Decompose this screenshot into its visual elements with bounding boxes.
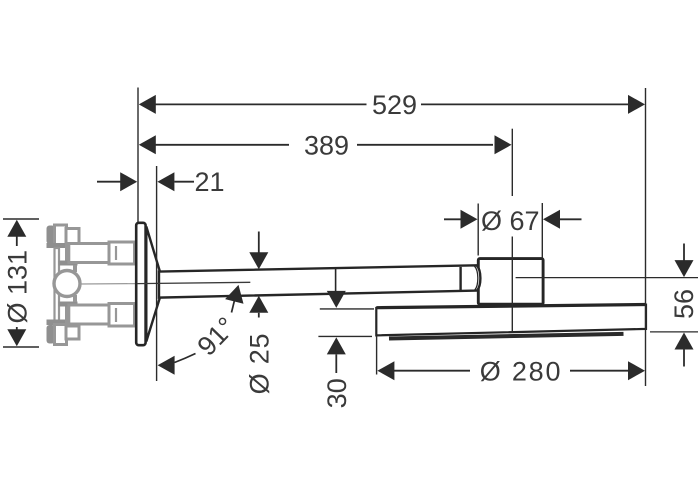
svg-text:21: 21 (194, 167, 224, 197)
Ø67 left tail (444, 218, 461, 220)
dimension Ø25 (249, 232, 268, 318)
column notch lower (73, 295, 77, 302)
upper rail tube (69, 244, 109, 263)
Ø67 right tail (560, 218, 582, 220)
389 dim line left segment (154, 144, 289, 146)
lower rail tube (69, 305, 109, 324)
Ø25 lower tail (258, 313, 260, 318)
top-right tab (66, 229, 79, 244)
Ø25 up arrow (249, 296, 268, 313)
dimension Ø280 (377, 336, 645, 380)
center column lower (67, 306, 79, 325)
angle dimension 91° (158, 285, 244, 375)
Ø280 right arrow (628, 361, 645, 380)
top mounting box (55, 225, 67, 245)
Ø67 right extension line (541, 203, 543, 258)
svg-text:529: 529 (372, 90, 417, 120)
column notch upper (73, 265, 77, 272)
dimension 30 (318, 291, 374, 373)
center extension line upper (511, 129, 513, 196)
56 top reference line (516, 277, 698, 279)
21 right approach tail (174, 181, 194, 183)
56 bottom reference line (650, 331, 698, 333)
91° label (191, 311, 241, 361)
left thin bar (55, 248, 60, 323)
spray face band (389, 334, 624, 339)
30 up arrow (327, 337, 346, 354)
top divider band (47, 243, 67, 248)
91° wall-side arrow (158, 356, 175, 375)
529 right arrow (628, 95, 645, 114)
pivot plane extension line (156, 166, 158, 381)
wall escutcheon rim (136, 223, 145, 345)
Ø280 left extension line (376, 336, 378, 375)
56 upper tail (683, 244, 685, 261)
30 top reference line (320, 308, 374, 310)
Ø280 dim line right segment (570, 370, 629, 372)
bottom-right tab (66, 326, 79, 339)
wall plane extension line (137, 88, 139, 223)
389 right arrow (495, 135, 512, 154)
Ø131 down arrow (7, 329, 26, 346)
529 left arrow (139, 95, 156, 114)
389 left arrow (139, 135, 156, 154)
Ø67 left extension line (477, 204, 479, 256)
bottom-left dark bar (47, 325, 56, 344)
Ø280 left arrow (377, 361, 394, 380)
connector block (Ø67 cylinder) (478, 259, 543, 305)
dimension 529 (138, 88, 646, 387)
arm center line (137, 282, 250, 283)
svg-text:Ø 25: Ø 25 (244, 333, 274, 395)
dimension 21 (97, 166, 194, 381)
lower rung (59, 302, 78, 307)
91° arm-side leader (232, 295, 236, 313)
center extension line lower (511, 237, 513, 332)
Ø131 up arrow (7, 220, 26, 237)
56 label (669, 289, 699, 319)
Ø131 dim line upper segment (16, 236, 18, 246)
bottom divider band (47, 320, 67, 326)
30 label (322, 378, 352, 408)
Ø25 down arrow (249, 252, 268, 269)
529 dim line right segment (421, 103, 629, 105)
bottom mounting box (55, 325, 67, 345)
21 left approach tail (97, 181, 121, 183)
right extension line (529 / Ø280) (645, 88, 647, 386)
30 bottom reference line (318, 335, 372, 337)
upper rung (59, 261, 78, 266)
svg-text:Ø 67: Ø 67 (481, 206, 540, 236)
Ø280 dim line left segment (394, 370, 470, 372)
lower rail sleeve (109, 304, 135, 327)
svg-text:30: 30 (322, 378, 352, 408)
56 lower tail (683, 350, 685, 367)
pipe joint 1 (335, 268, 337, 293)
valve circle (54, 271, 80, 297)
dimension 56 (516, 244, 698, 367)
pipe joint 2 (459, 267, 461, 291)
529 dim line left segment (154, 103, 367, 105)
Ø67 right arrow (543, 210, 560, 229)
Ø25 label (244, 333, 274, 395)
shower arm pipe (159, 265, 480, 297)
escutcheon cone (146, 227, 160, 342)
gray supply center line (80, 283, 136, 285)
dimension Ø67 (444, 203, 582, 258)
30 lower tail (335, 354, 337, 373)
21 left approach arrow (120, 172, 137, 191)
top-left dark bar (47, 226, 56, 245)
91° arm-side arrow (225, 285, 243, 304)
Ø131 dim line lower segment (16, 327, 18, 330)
upper rail sleeve (109, 242, 135, 264)
dimension 389 (139, 129, 513, 331)
svg-text:56: 56 (669, 289, 699, 319)
pipe end inner cap arc (475, 266, 478, 290)
Ø25 upper tail (258, 232, 260, 254)
lower sleeve inner edge (115, 308, 117, 322)
30 down arrow (327, 291, 346, 308)
56 up arrow (675, 333, 694, 350)
upper sleeve inner edge (115, 246, 117, 260)
389 dim line right segment (357, 144, 493, 146)
center column upper (67, 244, 79, 262)
concealed installation body (gray iBox) (47, 225, 137, 345)
91° arc segment (175, 354, 196, 363)
dimension Ø131 (3, 219, 39, 347)
Ø131 bottom reference line (3, 346, 39, 348)
56 down arrow (675, 260, 694, 277)
shower head top edge (376, 305, 646, 308)
svg-text:389: 389 (304, 130, 349, 160)
svg-text:Ø 280: Ø 280 (480, 356, 563, 386)
21 right approach arrow (157, 172, 174, 191)
Ø131 top reference line (3, 218, 39, 220)
Ø67 left arrow (461, 210, 478, 229)
svg-text:Ø 131: Ø 131 (2, 250, 32, 324)
shower head disc (376, 305, 646, 336)
Ø131 label (2, 250, 32, 324)
